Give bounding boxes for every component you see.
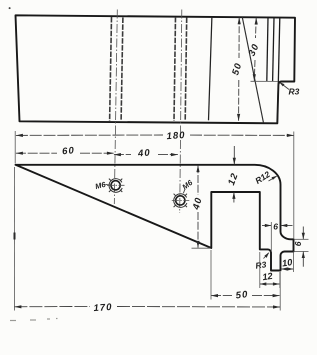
hole M6 no.1 (front view): [107, 179, 125, 193]
front view outline: [16, 165, 294, 271]
R3 label (top view): [279, 82, 300, 97]
dimension 6 (wall thickness): [262, 222, 293, 253]
hole 2 centerline (through both views): [180, 10, 182, 214]
extension line for 40: [192, 247, 211, 249]
R12 label: [253, 169, 277, 186]
svg-text:40: 40: [137, 147, 152, 159]
dimension 50 (bottom): [211, 250, 280, 301]
top view outline: [16, 15, 296, 123]
top view notch extension line: [251, 80, 279, 82]
ink blob on extension line: [14, 233, 16, 240]
hole 1 centerline (through both views): [114, 10, 117, 205]
R3 label (front view): [255, 252, 269, 271]
faint caption remnants: [10, 319, 58, 321]
top view rib edge: [209, 17, 212, 121]
top-left stray dot: [9, 7, 11, 9]
dimension 30 (top view notch depth): [247, 18, 262, 82]
top view bend edge (slanted): [242, 17, 263, 123]
svg-text:R3: R3: [255, 259, 267, 270]
top view wall outer edge: [277, 18, 279, 123]
left extension line: [14, 131, 16, 164]
dimension 60: [16, 145, 114, 157]
top view wall lower inner edge: [273, 18, 274, 82]
hole M6 no.2 (front view): [172, 194, 190, 208]
hole 1 hidden lines: [110, 17, 187, 121]
svg-text:R3: R3: [289, 87, 300, 97]
svg-text:6: 6: [293, 241, 303, 246]
svg-text:60: 60: [62, 145, 76, 157]
M6 label hole 1: [94, 180, 111, 191]
dimension 50 (top view height): [230, 17, 244, 121]
dimension 40 vertical (rib height): [191, 165, 211, 248]
dimension 180 (top of front view): [16, 130, 294, 239]
left extension line lower: [13, 167, 15, 311]
dimension 6 right (tab thickness): [293, 227, 308, 267]
svg-text:6: 6: [273, 222, 278, 232]
top view wall inner edge: [267, 18, 268, 82]
svg-text:50: 50: [235, 289, 249, 301]
extension line x=271.3: [270, 222, 272, 252]
svg-text:170: 170: [93, 302, 113, 314]
svg-text:180: 180: [166, 130, 186, 142]
dimension 12 (plate thickness): [226, 146, 241, 203]
dimension 170 (bottom): [14, 272, 280, 314]
dimension 10 (tab length): [281, 252, 294, 273]
hole 2 hidden lines: [174, 17, 176, 121]
dimension 40 horizontal: [114, 147, 178, 159]
dimension 12 (bottom notch): [260, 252, 280, 288]
M6 label hole 2: [180, 178, 194, 194]
